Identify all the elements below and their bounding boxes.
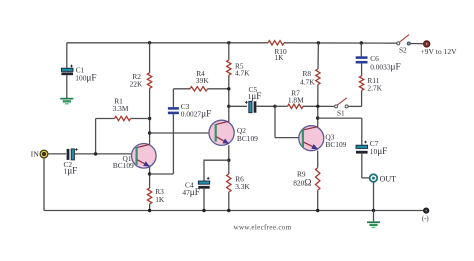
wire R2 top lead [149,43,151,73]
svg-text:1.8M: 1.8M [288,96,304,105]
C4 plus [207,177,210,180]
junction R4 / R5 [227,87,230,90]
capacitor C7 [356,145,368,148]
wire to ground [373,211,375,222]
wire C3 top lead [172,89,174,107]
wire R1 to base node [95,119,97,155]
junction top rail / R5 [227,41,230,44]
wire C5 to R7 node [257,105,275,107]
svg-text:www.elecfree.com: www.elecfree.com [234,223,292,231]
wire R5 bottom to Q2 collector [228,75,230,122]
resistor R8 [316,69,320,85]
wire R9 bottom lead [317,190,319,210]
wire Q3 emitter down [317,151,319,168]
wire R4 left lead [173,88,190,90]
wire R1 left lead [96,118,115,120]
transistor Q2 BC109 [209,120,234,145]
wire Q2 collector to C5 [229,105,247,107]
C1 plus [70,65,73,68]
svg-text:BC109: BC109 [237,134,258,143]
svg-text:100μF: 100μF [75,74,96,84]
resistor R6 [227,174,231,192]
wire Q2 emitter down [228,145,230,174]
wire to Q2 base [150,132,215,134]
C7 plus [364,141,367,144]
svg-text:IN: IN [31,150,40,159]
junction top rail / C6 [360,41,363,44]
wire R4 right lead [208,88,229,90]
wire R5 top lead [228,43,230,60]
resistor R9 [316,168,320,191]
junction C5 / R7 / Q3 base [273,105,276,108]
svg-text:3.3K: 3.3K [235,182,250,191]
resistor R10 [268,41,284,45]
wire R8 bottom to Q3 collector [317,85,319,128]
wire C4 bottom lead [203,189,205,211]
wire to C4 [204,160,229,181]
svg-text:39K: 39K [196,76,209,85]
terminal OUT [370,174,378,182]
junction Q3 collector / C7 link [316,116,319,119]
wire S2 to +9V terminal [410,43,423,45]
terminal IN [40,150,48,158]
svg-text:BC109: BC109 [113,161,134,170]
wire IN to C2 [48,153,67,155]
resistor R7 [288,104,304,108]
svg-text:BC109: BC109 [325,140,346,149]
junction Q1 emitter / C3 return [148,172,151,175]
capacitor C4 [198,181,209,184]
svg-text:0.0033μF: 0.0033μF [370,62,400,72]
wire C2 to Q1 base [75,153,137,155]
resistor R4 [190,87,208,91]
svg-text:10μF: 10μF [370,147,388,157]
wire down to C7 [361,118,363,145]
capacitor C6 [356,56,368,59]
resistor R5 [227,60,231,75]
resistor R2 [147,73,151,89]
wire bottom rail [44,210,424,212]
svg-text:4.7K: 4.7K [300,78,315,87]
junction Q1 collector / Q2 base wire [148,131,151,134]
svg-text:S2: S2 [399,45,407,54]
junction R3 / bottom rail [148,209,151,212]
wire R8 top lead [317,43,319,69]
svg-text:1μF: 1μF [64,167,78,177]
svg-text:1μF: 1μF [248,92,262,102]
svg-text:0.0027μF: 0.0027μF [181,109,211,119]
junction top rail / R2 [148,41,151,44]
svg-text:820Ω: 820Ω [293,177,311,188]
resistor R3 [147,188,151,204]
ground below bottom rail [367,221,380,223]
svg-text:1K: 1K [155,195,165,204]
wire to OUT terminal [362,177,370,179]
junction base node [94,152,97,155]
svg-text:22K: 22K [130,80,143,89]
wire C6 top lead [360,43,362,56]
svg-text:4.7K: 4.7K [235,68,250,77]
wire R7 left lead [275,105,288,107]
wire C6 to R11 [361,63,363,75]
svg-text:(-): (-) [422,216,429,223]
wire R11 to S1 right contact [348,105,362,107]
wire R7 to S1 [303,105,335,107]
wire C1 bottom lead [66,75,68,98]
resistor R1 [115,116,131,120]
switch S1 [335,98,349,108]
switch S2 [397,35,411,45]
wire to Q3 base bar [275,137,302,139]
svg-text:S1: S1 [337,108,345,117]
junction R9 / bottom rail [316,209,319,212]
wire OUT down to bottom rail [373,182,375,211]
C2 plus [75,148,78,151]
junction bottom rail / ground [372,209,375,212]
transistor Q3 BC109 [299,126,324,151]
wire top rail right of R10 [284,42,398,44]
capacitor C5 [249,101,252,112]
junction R6 / bottom rail [227,209,230,212]
wire Q1 emitter down [149,166,151,188]
ground below C1 [60,98,73,100]
svg-text:47μF: 47μF [182,188,200,198]
junction top rail / R8 [317,41,320,44]
wire C1 top lead [66,43,68,69]
terminal +9V [424,41,430,47]
wire C7 to OUT corner [361,154,363,178]
wire R2 bottom to Q1 collector [149,88,151,146]
svg-text:1K: 1K [274,53,284,62]
svg-text:2.7K: 2.7K [367,83,382,92]
terminal (-) [424,208,429,213]
C5 plus [245,101,248,104]
wire Q1 emitter to C3 [150,173,174,175]
junction C4 / bottom rail [202,209,205,212]
wire R6 bottom lead [228,192,230,211]
wire R11 bottom lead [361,90,363,106]
capacitor C1 [61,68,73,71]
transistor Q1 BC109 [132,144,157,169]
junction Q2 collector / C5 [227,105,230,108]
wire C3 bottom lead [172,114,174,174]
wire R3 bottom lead [149,204,151,211]
resistor R11 [359,76,363,91]
wire R1 right lead [131,118,150,120]
junction R2/R1 [148,117,151,120]
wire Q3 collector to C7 link [318,117,362,119]
junction Q2 emitter / C4 [227,159,230,162]
wire IN down to bottom rail [43,158,45,211]
junction R7 wire / R8 line [316,105,319,108]
svg-text:3.3M: 3.3M [113,104,129,113]
wire down to Q3 base [274,106,276,137]
svg-text:OUT: OUT [380,174,397,183]
wire top rail left of R10 [67,42,268,44]
svg-text:+9V to 12V: +9V to 12V [420,47,457,56]
capacitor C2 [67,149,70,160]
capacitor C3 [168,107,179,110]
